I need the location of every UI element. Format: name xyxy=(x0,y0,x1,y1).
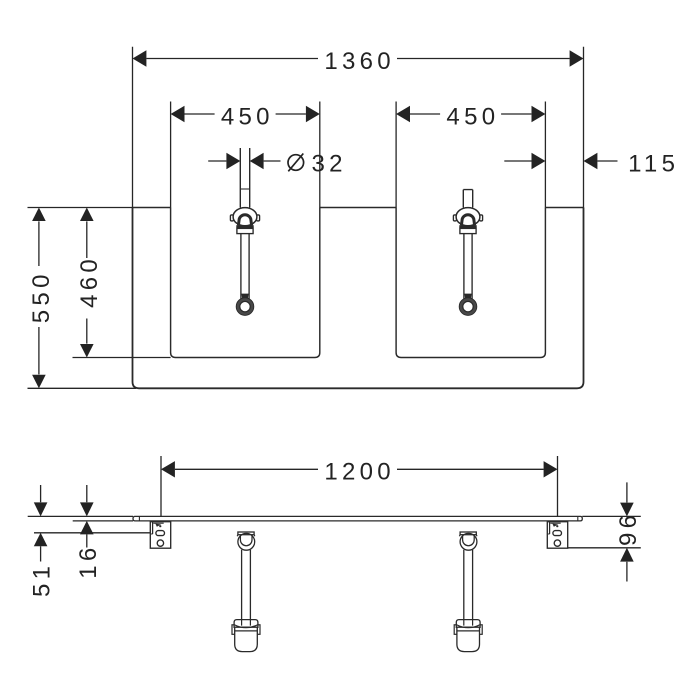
arrow 450b right xyxy=(532,106,546,122)
dimension line 450 first xyxy=(185,113,306,115)
wall bracket right xyxy=(547,522,567,549)
dimension tail lines 115 xyxy=(504,160,617,162)
dimension tails 16 xyxy=(86,485,88,548)
drain 1 placement xyxy=(230,208,259,316)
dimension line 460 vertical xyxy=(86,221,88,343)
extension line slab top right (96) xyxy=(582,515,641,517)
arrow 96 bottom pointing up xyxy=(620,548,634,562)
console top edge left tab xyxy=(133,207,171,209)
svg-text:460: 460 xyxy=(76,255,103,308)
extension line bracket slot (51) xyxy=(34,532,156,534)
extension line console bottom left (550) xyxy=(28,387,137,389)
arrow diameter32 left pointing right xyxy=(226,153,240,169)
console top edge middle tab xyxy=(320,207,396,209)
extension line cutout2 right above xyxy=(544,102,546,208)
svg-text:550: 550 xyxy=(28,270,55,323)
dimension tail lines diameter 32 xyxy=(208,160,280,162)
dimension line 1200 xyxy=(175,468,544,470)
label 1360 xyxy=(318,48,397,75)
dimension line 450 second xyxy=(410,113,531,115)
svg-text:1200: 1200 xyxy=(324,459,395,486)
arrow 16 top pointing down xyxy=(80,502,94,516)
arrow 550 up xyxy=(32,208,46,222)
extension line console top left (550/460) xyxy=(28,207,133,209)
svg-text:51: 51 xyxy=(29,562,56,597)
extension line 1200 right xyxy=(557,456,559,516)
console outline front view xyxy=(133,208,584,389)
basin cutout 1 xyxy=(171,208,320,358)
arrow 1360 left xyxy=(133,50,147,66)
extension line bracket bottom right (96) xyxy=(568,547,641,549)
arrow 1360 right xyxy=(570,50,584,66)
extension line console right (x=583.5) xyxy=(583,47,585,208)
arrow 450a right xyxy=(306,106,320,122)
side view slab xyxy=(133,516,582,521)
label diameter 32 symbol xyxy=(288,154,304,172)
bottle trap 2 placement xyxy=(454,532,482,652)
extension line slab bottom left (16) xyxy=(73,520,133,522)
arrow 1200 left xyxy=(161,461,175,477)
wall bracket left xyxy=(150,522,170,549)
dimension line 550 vertical xyxy=(38,221,40,374)
console top edge right tab xyxy=(545,207,583,209)
svg-text:115: 115 xyxy=(628,150,679,177)
extension line cutout1 left above xyxy=(170,102,172,208)
slab right end divider xyxy=(577,516,579,521)
arrow 460 down xyxy=(80,344,94,358)
svg-text:32: 32 xyxy=(312,150,347,177)
arrow 51 bottom pointing up xyxy=(34,533,48,547)
arrow 96 top pointing down xyxy=(620,503,634,517)
label 450 first xyxy=(215,103,276,130)
bottle trap 1 placement xyxy=(232,532,260,652)
drain 2 body xyxy=(453,208,482,316)
drain 1 pipe joint tick xyxy=(240,188,249,190)
arrow 115 right pointing left xyxy=(584,153,598,169)
svg-text:1360: 1360 xyxy=(324,48,395,75)
arrow 51 top pointing down xyxy=(34,502,48,516)
label 450 second xyxy=(440,103,501,130)
arrow 460 up xyxy=(80,208,94,222)
extension line cutout1 right above xyxy=(319,102,321,208)
arrow 450a left xyxy=(171,106,185,122)
drain 1 upper pipe xyxy=(240,148,249,208)
extension line cutout2 left above xyxy=(395,102,397,208)
arrow 115 left pointing right xyxy=(532,153,546,169)
arrow 1200 right xyxy=(544,461,558,477)
svg-text:96: 96 xyxy=(615,511,642,546)
svg-text:450: 450 xyxy=(221,103,274,130)
label 1200 xyxy=(318,458,397,485)
dimension tails 96 xyxy=(626,482,628,581)
arrow 450b left xyxy=(396,106,410,122)
extension line slab top left xyxy=(28,515,133,517)
slab left end divider xyxy=(138,516,140,521)
dimension tails 51 xyxy=(40,485,42,562)
extension line 1200 left xyxy=(160,456,162,516)
arrow diameter32 right pointing left xyxy=(250,153,264,169)
extension line console left (x=132.5) xyxy=(132,47,134,208)
arrow 550 down xyxy=(32,375,46,389)
svg-text:450: 450 xyxy=(446,103,499,130)
extension line cutout bottom left (460) xyxy=(73,357,171,359)
dimension line 1360 xyxy=(146,58,569,60)
basin cutout 2 xyxy=(396,208,545,358)
svg-text:16: 16 xyxy=(75,544,102,579)
drain 2 upper pipe capped xyxy=(463,190,472,208)
arrow 16 bottom pointing up xyxy=(80,521,94,535)
